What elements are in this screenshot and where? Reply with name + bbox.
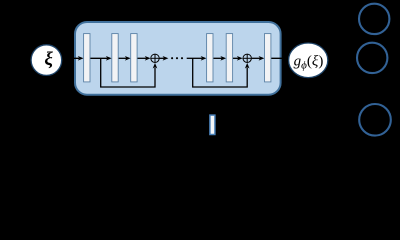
svg-text:ξ: ξ bbox=[44, 49, 53, 70]
svg-text:gϕ(ξ): gϕ(ξ) bbox=[294, 54, 324, 72]
